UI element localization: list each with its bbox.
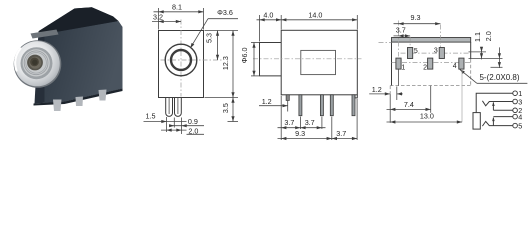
dim 9.3 top (394, 13, 441, 26)
terminal 2 circle (513, 108, 518, 113)
photo: pin middle (76, 97, 84, 107)
side right foot step (355, 95, 357, 98)
dim 7.4 (387, 100, 431, 111)
top view right edge solid part (470, 42, 472, 59)
svg-text:3.7: 3.7 (284, 118, 294, 127)
svg-text:5: 5 (414, 48, 418, 55)
svg-text:3: 3 (434, 48, 438, 55)
svg-text:1.1: 1.1 (473, 32, 482, 42)
dim 9.3 / 3.7 row (278, 129, 358, 140)
top view left edge (391, 42, 393, 86)
dim 2.0 right (484, 31, 503, 68)
dim 3.7 top (394, 26, 411, 38)
svg-text:2.0: 2.0 (188, 126, 198, 135)
svg-text:4: 4 (518, 112, 522, 121)
left extension vertical (389, 86, 391, 95)
wire pin3 with tip contact V (482, 101, 512, 106)
dim 1.2 top view (369, 85, 403, 96)
svg-text:3.2: 3.2 (153, 13, 163, 22)
pad centerline extensions (397, 21, 399, 57)
terminal 3 circle (513, 99, 518, 104)
svg-text:14.0: 14.0 (308, 11, 322, 20)
svg-text:9.3: 9.3 (295, 129, 305, 138)
front pin 2 (175, 98, 182, 117)
dim 12.3 (205, 31, 239, 98)
label Phi3.6 with leader (189, 8, 238, 49)
side bottom extension lines (280, 96, 282, 140)
photo: jack body silhouette (35, 7, 123, 103)
side pin 3 (320, 95, 323, 116)
svg-text:7.4: 7.4 (404, 100, 414, 109)
pad 5 (408, 48, 413, 59)
row B centerline (392, 62, 471, 64)
dim 13.0 (387, 111, 463, 123)
svg-text:2: 2 (423, 65, 427, 72)
side barrel outline (260, 43, 282, 76)
top view left centerline stub (379, 41, 392, 43)
dim 8.1 (154, 3, 204, 30)
photo: nut edge above barrel (31, 30, 59, 39)
dim Phi6.0 (240, 43, 259, 76)
svg-text:5: 5 (518, 121, 522, 130)
dim 2.0 (161, 126, 204, 135)
row A centerline (401, 52, 469, 54)
terminal 4 circle (513, 114, 518, 119)
pad 2 (428, 58, 433, 69)
svg-text:Φ3.6: Φ3.6 (217, 8, 233, 17)
svg-text:3.7: 3.7 (396, 26, 406, 35)
side pin 1 (short) (286, 95, 289, 101)
dim 5.3 (205, 31, 239, 61)
svg-text:3: 3 (518, 97, 522, 106)
pad 1 (396, 58, 401, 69)
side pin 5 (352, 95, 355, 116)
dim 3.7 / 3.7 row (278, 118, 326, 129)
switch arrow 5->4 (492, 118, 494, 126)
dim 1.5 (144, 112, 187, 124)
front horizontal centerline (161, 59, 223, 61)
dim 4.0 (257, 11, 282, 42)
switch arrow 2->3 (492, 103, 494, 111)
svg-text:4.0: 4.0 (263, 11, 273, 20)
side pin 2 (299, 95, 302, 116)
photo: jack right side face (45, 21, 123, 103)
photo: pin front-left (53, 100, 62, 112)
front jack inner circle (171, 50, 191, 70)
svg-text:0.9: 0.9 (188, 117, 198, 126)
svg-text:1.2: 1.2 (262, 97, 272, 106)
photo: barrel flange (14, 40, 62, 88)
wire pin1 (476, 93, 513, 112)
pad 3 (439, 48, 444, 59)
svg-text:13.0: 13.0 (420, 111, 434, 120)
top view right edge hidden part (470, 59, 472, 85)
photo: barrel bore hole (27, 55, 43, 71)
svg-text:5-(2.0X0.8): 5-(2.0X0.8) (479, 73, 519, 82)
wire pin4 (493, 116, 512, 118)
svg-text:Φ6.0: Φ6.0 (240, 48, 249, 64)
svg-text:1.5: 1.5 (146, 112, 156, 121)
svg-text:2.0: 2.0 (484, 31, 493, 41)
svg-text:1.2: 1.2 (372, 85, 382, 94)
pin extension lines (166, 117, 168, 132)
pad4 extension vertical (461, 69, 463, 122)
wire pin2 (493, 109, 512, 111)
side centerline (253, 58, 362, 60)
dim 14.0 (281, 11, 357, 30)
dim 3.2 (152, 13, 181, 24)
terminal 5 circle (513, 123, 518, 128)
label 5-(2.0X0.8) with leader (459, 68, 528, 83)
top view body band (392, 38, 471, 43)
photo: bottom edge shadow (34, 89, 123, 106)
svg-text:3.5: 3.5 (221, 103, 230, 113)
pad 4 (459, 58, 464, 69)
svg-text:9.3: 9.3 (411, 13, 421, 22)
side body outline (281, 30, 357, 95)
photo: pin right (99, 90, 107, 101)
dim 0.9 (169, 117, 204, 127)
svg-text:3.7: 3.7 (336, 129, 346, 138)
pad2 extension vertical (430, 86, 432, 113)
side pin 4 (330, 95, 333, 116)
svg-text:8.1: 8.1 (172, 3, 182, 12)
dim 1.2 side (259, 97, 288, 107)
photo: jack top face (39, 7, 119, 34)
wire pin5 with ring contact (482, 121, 512, 126)
svg-text:1: 1 (401, 65, 405, 72)
extension for 1.2 (396, 87, 398, 101)
side inner rectangle (301, 50, 336, 74)
dim 3.5 (221, 98, 238, 122)
top view bottom hidden edge (390, 85, 471, 87)
front jack outer circle (165, 44, 197, 76)
dim 1.1 right (469, 32, 503, 59)
front pin 1 (166, 98, 173, 117)
sleeve contact box (473, 113, 480, 130)
svg-text:3.7: 3.7 (305, 118, 315, 127)
photo: barrel step ring (21, 47, 53, 79)
svg-text:4: 4 (453, 63, 457, 70)
terminal 1 circle (513, 91, 518, 96)
svg-text:5.3: 5.3 (205, 33, 214, 43)
front vertical centerline (180, 20, 182, 97)
svg-text:12.3: 12.3 (221, 56, 230, 70)
front body outline (159, 31, 204, 98)
